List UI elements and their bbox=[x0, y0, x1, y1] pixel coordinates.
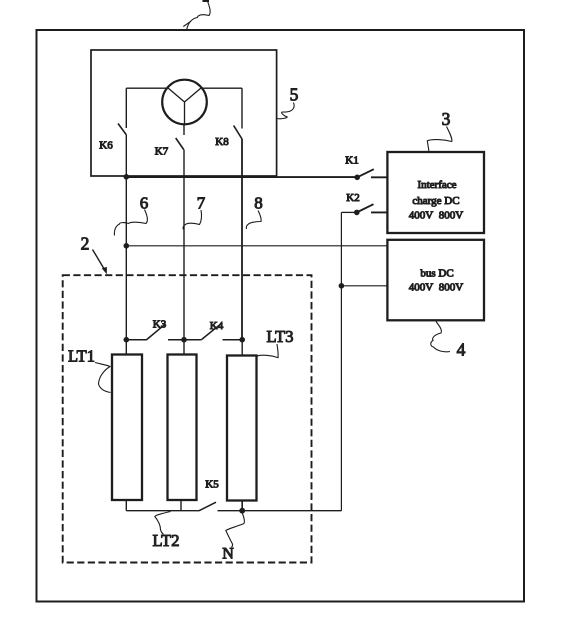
battery LT3 (right) bbox=[227, 356, 257, 501]
leader arrow for 2 bbox=[93, 250, 105, 270]
box 5 (motor enclosure) bbox=[91, 50, 277, 176]
node wire to K1 bbox=[126, 176, 357, 178]
wire phase bus y=339.7 bbox=[126, 339, 242, 341]
battery LT1 bbox=[112, 355, 142, 501]
svg-text:K8: K8 bbox=[215, 136, 229, 148]
svg-text:K3: K3 bbox=[153, 319, 167, 331]
svg-text:bus DC: bus DC bbox=[420, 268, 453, 280]
leader for LT3 bbox=[257, 344, 278, 358]
svg-text:4: 4 bbox=[457, 340, 466, 360]
bottom stub LT3 with junction dot N bbox=[241, 501, 243, 511]
stub to LT3 bbox=[241, 340, 243, 356]
svg-text:charge DC: charge DC bbox=[412, 195, 459, 207]
svg-text:Interface: Interface bbox=[417, 179, 456, 191]
switch K8 bbox=[234, 126, 242, 139]
svg-text:LT1: LT1 bbox=[68, 347, 95, 366]
wire top bus in box 5 bbox=[126, 87, 242, 89]
svg-text:400V 800V: 400V 800V bbox=[409, 282, 463, 294]
svg-text:K7: K7 bbox=[155, 146, 169, 158]
leader for LT1 bbox=[95, 363, 111, 393]
stub to LT1 bbox=[125, 340, 127, 355]
svg-text:K5: K5 bbox=[205, 479, 219, 491]
dashed box 2 (battery unit) bbox=[63, 275, 312, 562]
wire 8 vertical upper bbox=[241, 88, 243, 128]
wire K2 drop vertical bbox=[340, 212, 342, 510]
bottom stub LT1 bbox=[125, 500, 127, 511]
junction dot on K2 drop bbox=[339, 283, 345, 289]
box U4 bus DC bbox=[387, 240, 484, 320]
wire node2 horizontal to bus DC box bbox=[126, 245, 387, 247]
svg-text:6: 6 bbox=[140, 194, 149, 213]
junction dot node A bbox=[124, 337, 130, 343]
box U3 interface charge DC bbox=[387, 152, 484, 233]
outer border frame bbox=[37, 30, 525, 602]
switch K3 bbox=[147, 324, 165, 339]
svg-text:7: 7 bbox=[197, 194, 206, 213]
junction dot node C bbox=[239, 337, 245, 343]
motor winding Y bbox=[168, 88, 202, 125]
svg-text:400V 800V: 400V 800V bbox=[409, 210, 463, 222]
svg-text:K1: K1 bbox=[345, 155, 358, 167]
wire branch to bus DC box lower input bbox=[341, 285, 387, 287]
wire neutral bottom bbox=[126, 510, 341, 512]
junction dot wire6/node wire bbox=[124, 174, 130, 180]
switch K1 bbox=[345, 155, 387, 181]
svg-text:LT3: LT3 bbox=[267, 327, 294, 346]
label 1 fragment at top bbox=[183, 0, 210, 29]
leader for 7 bbox=[183, 210, 201, 230]
svg-text:5: 5 bbox=[290, 85, 299, 105]
wire 8 vertical lower bbox=[241, 139, 243, 340]
motor M (3-phase) bbox=[162, 80, 207, 125]
svg-text:K4: K4 bbox=[210, 320, 224, 332]
svg-text:K2: K2 bbox=[346, 192, 359, 204]
wire 7 vertical lower bbox=[183, 150, 185, 340]
battery LT2 (middle) bbox=[168, 355, 197, 501]
junction dot node B bbox=[181, 337, 187, 343]
leader for 3 bbox=[427, 127, 452, 153]
switch K4 bbox=[202, 324, 221, 339]
svg-text:K6: K6 bbox=[99, 140, 113, 152]
bottom stub LT2 bbox=[180, 500, 182, 511]
leader for N bbox=[226, 514, 245, 548]
wire 7 vertical upper bbox=[183, 124, 185, 135]
leader for 8 bbox=[246, 211, 261, 230]
switch K6 bbox=[118, 124, 126, 135]
leader for 4 bbox=[431, 322, 450, 352]
svg-text:8: 8 bbox=[254, 194, 263, 213]
svg-text:2: 2 bbox=[81, 234, 90, 254]
switch K2 bbox=[341, 192, 387, 215]
svg-text:N: N bbox=[222, 546, 234, 563]
leader for 5 bbox=[277, 103, 294, 119]
junction dot wire6/node2 bbox=[124, 243, 130, 249]
wire 6 vertical upper bbox=[125, 88, 127, 128]
stub to LT2 bbox=[183, 340, 185, 355]
switch K5 bbox=[199, 502, 216, 510]
wire 6 vertical lower bbox=[125, 135, 127, 340]
switch K7 bbox=[176, 138, 184, 150]
svg-text:LT2: LT2 bbox=[153, 531, 180, 550]
leader for LT2 bbox=[155, 512, 171, 535]
svg-text:3: 3 bbox=[442, 109, 451, 129]
leader for 6 bbox=[114, 210, 147, 236]
